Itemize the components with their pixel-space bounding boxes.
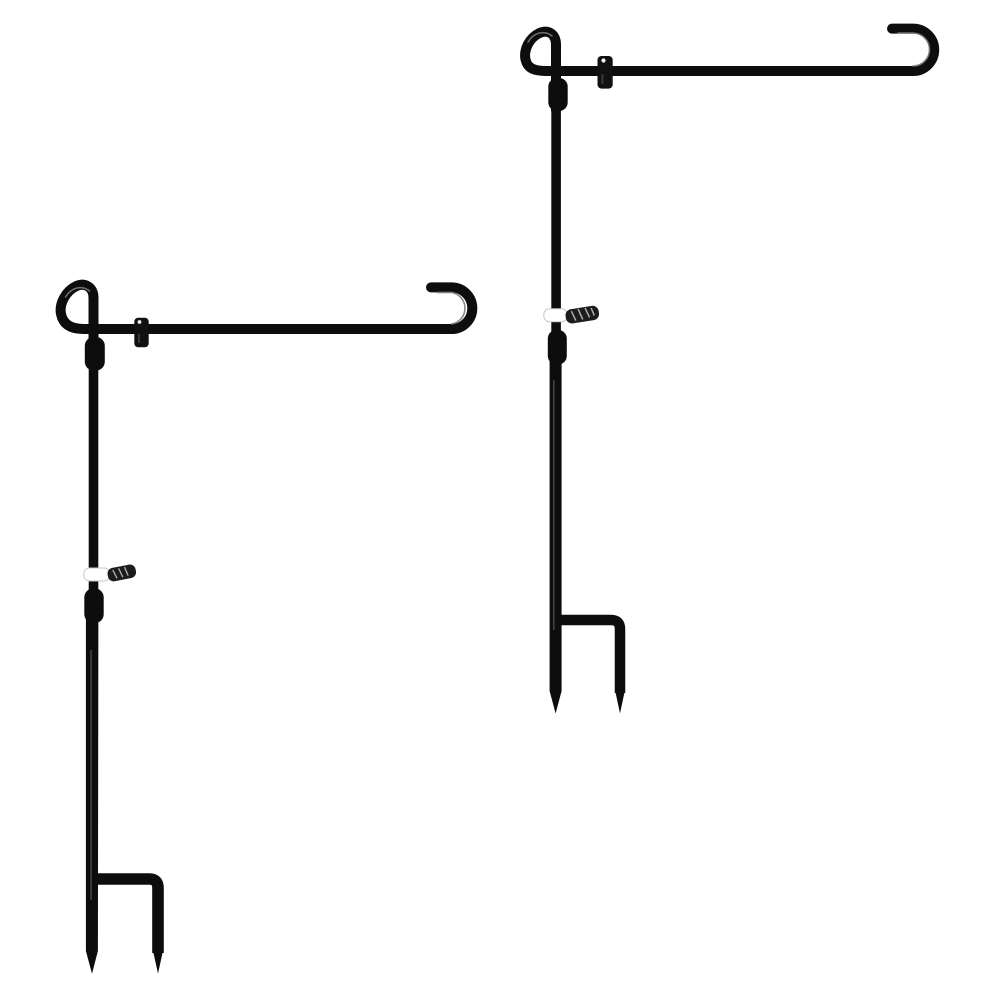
ferrule upper xyxy=(548,78,567,111)
foot bar + leg xyxy=(94,879,158,953)
white tie band xyxy=(84,568,110,581)
foot bar + leg xyxy=(556,620,620,693)
hook highlight xyxy=(437,292,465,324)
top wire: loop + arm + hook xyxy=(525,29,934,110)
clip on arm xyxy=(134,318,148,347)
ferrule lower xyxy=(548,330,567,365)
pole highlight xyxy=(553,380,555,630)
loop highlight xyxy=(66,288,90,297)
pole highlight xyxy=(90,650,92,900)
hook highlight xyxy=(898,33,930,66)
ferrule upper xyxy=(85,337,105,371)
tie dark end xyxy=(106,564,137,583)
tie dark end xyxy=(565,305,600,324)
lower thick pole with point xyxy=(550,345,562,714)
upper thin pole xyxy=(89,315,99,600)
upper thin pole xyxy=(551,60,561,340)
top wire: loop + arm + hook xyxy=(61,285,473,350)
white tie band xyxy=(544,309,567,322)
ferrule lower xyxy=(84,589,103,624)
lower thick pole with point xyxy=(86,605,99,974)
loop highlight xyxy=(528,33,552,42)
clip on arm xyxy=(598,56,613,89)
